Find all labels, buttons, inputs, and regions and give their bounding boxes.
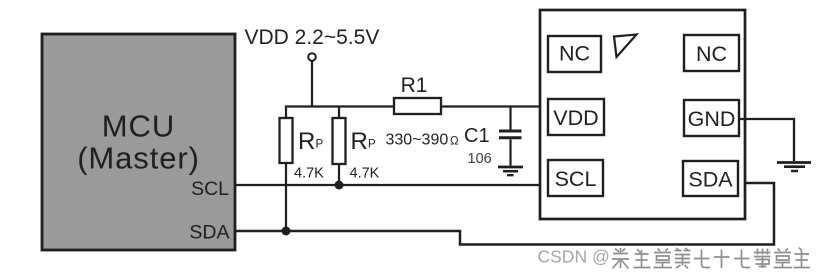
svg-text:330~390: 330~390	[386, 132, 449, 149]
VDD supply terminal	[245, 26, 380, 61]
IC pin box SDA	[683, 161, 738, 196]
wire VDD bus	[286, 107, 394, 119]
wire GND pin to ground	[739, 119, 794, 161]
resistor R1	[386, 74, 460, 149]
watermark chinese glyph halo	[612, 248, 810, 269]
wire SDA net: MCU to IC SDA pin (routed under)	[235, 183, 774, 245]
svg-text:C1: C1	[464, 125, 490, 147]
svg-text:VDD: VDD	[553, 106, 598, 130]
svg-text:4.7K: 4.7K	[350, 165, 380, 181]
wire R1 to IC VDD	[441, 105, 540, 107]
IC pin box NC (top-right)	[684, 35, 739, 71]
svg-text:GND: GND	[688, 107, 736, 131]
resistor RP1 (pull-up on SDA)	[280, 118, 325, 181]
resistor RP2 (pull-up on SCL)	[333, 118, 380, 181]
svg-text:SCL: SCL	[555, 167, 597, 191]
IC pin box SCL	[548, 160, 603, 196]
IC body	[540, 10, 745, 219]
wire RP2 bottom to SCL	[338, 164, 340, 185]
svg-text:NC: NC	[696, 42, 727, 66]
svg-text:P: P	[316, 139, 324, 151]
svg-text:NC: NC	[559, 42, 590, 66]
IC pin box VDD	[548, 99, 604, 135]
ground symbol right	[777, 163, 811, 172]
svg-text:MCU: MCU	[102, 109, 176, 144]
wire SCL net: MCU to IC	[235, 184, 540, 186]
svg-text:CSDN @: CSDN @	[538, 247, 610, 267]
svg-text:106: 106	[468, 151, 492, 167]
svg-text:SDA: SDA	[688, 168, 733, 192]
MCU pin label SDA	[189, 222, 229, 244]
svg-text:SCL: SCL	[191, 178, 229, 200]
svg-text:P: P	[368, 139, 376, 151]
wire RP1 bottom to SDA	[285, 163, 287, 231]
svg-text:R: R	[298, 128, 315, 155]
MCU pin label SCL	[191, 178, 229, 200]
IC pin box NC (top-left)	[548, 36, 601, 72]
svg-text:SDA: SDA	[189, 222, 229, 244]
pin 1 marker triangle	[614, 35, 637, 58]
junction dot on SCL	[335, 181, 344, 190]
junction dot on SDA	[282, 227, 291, 236]
capacitor C1	[464, 107, 522, 168]
svg-text:(Master): (Master)	[77, 141, 200, 176]
svg-text:R: R	[351, 128, 368, 155]
svg-text:Ω: Ω	[450, 136, 459, 148]
watermark chinese glyph blocks	[612, 248, 810, 269]
IC pin box GND	[684, 100, 739, 136]
MCU block (Master)	[42, 34, 235, 250]
ground under C1	[498, 167, 523, 175]
svg-text:R1: R1	[401, 74, 428, 97]
svg-text:VDD 2.2~5.5V: VDD 2.2~5.5V	[245, 26, 380, 49]
watermark CSDN	[538, 247, 610, 267]
svg-text:4.7K: 4.7K	[294, 165, 324, 181]
wire VDD stem	[311, 61, 313, 108]
